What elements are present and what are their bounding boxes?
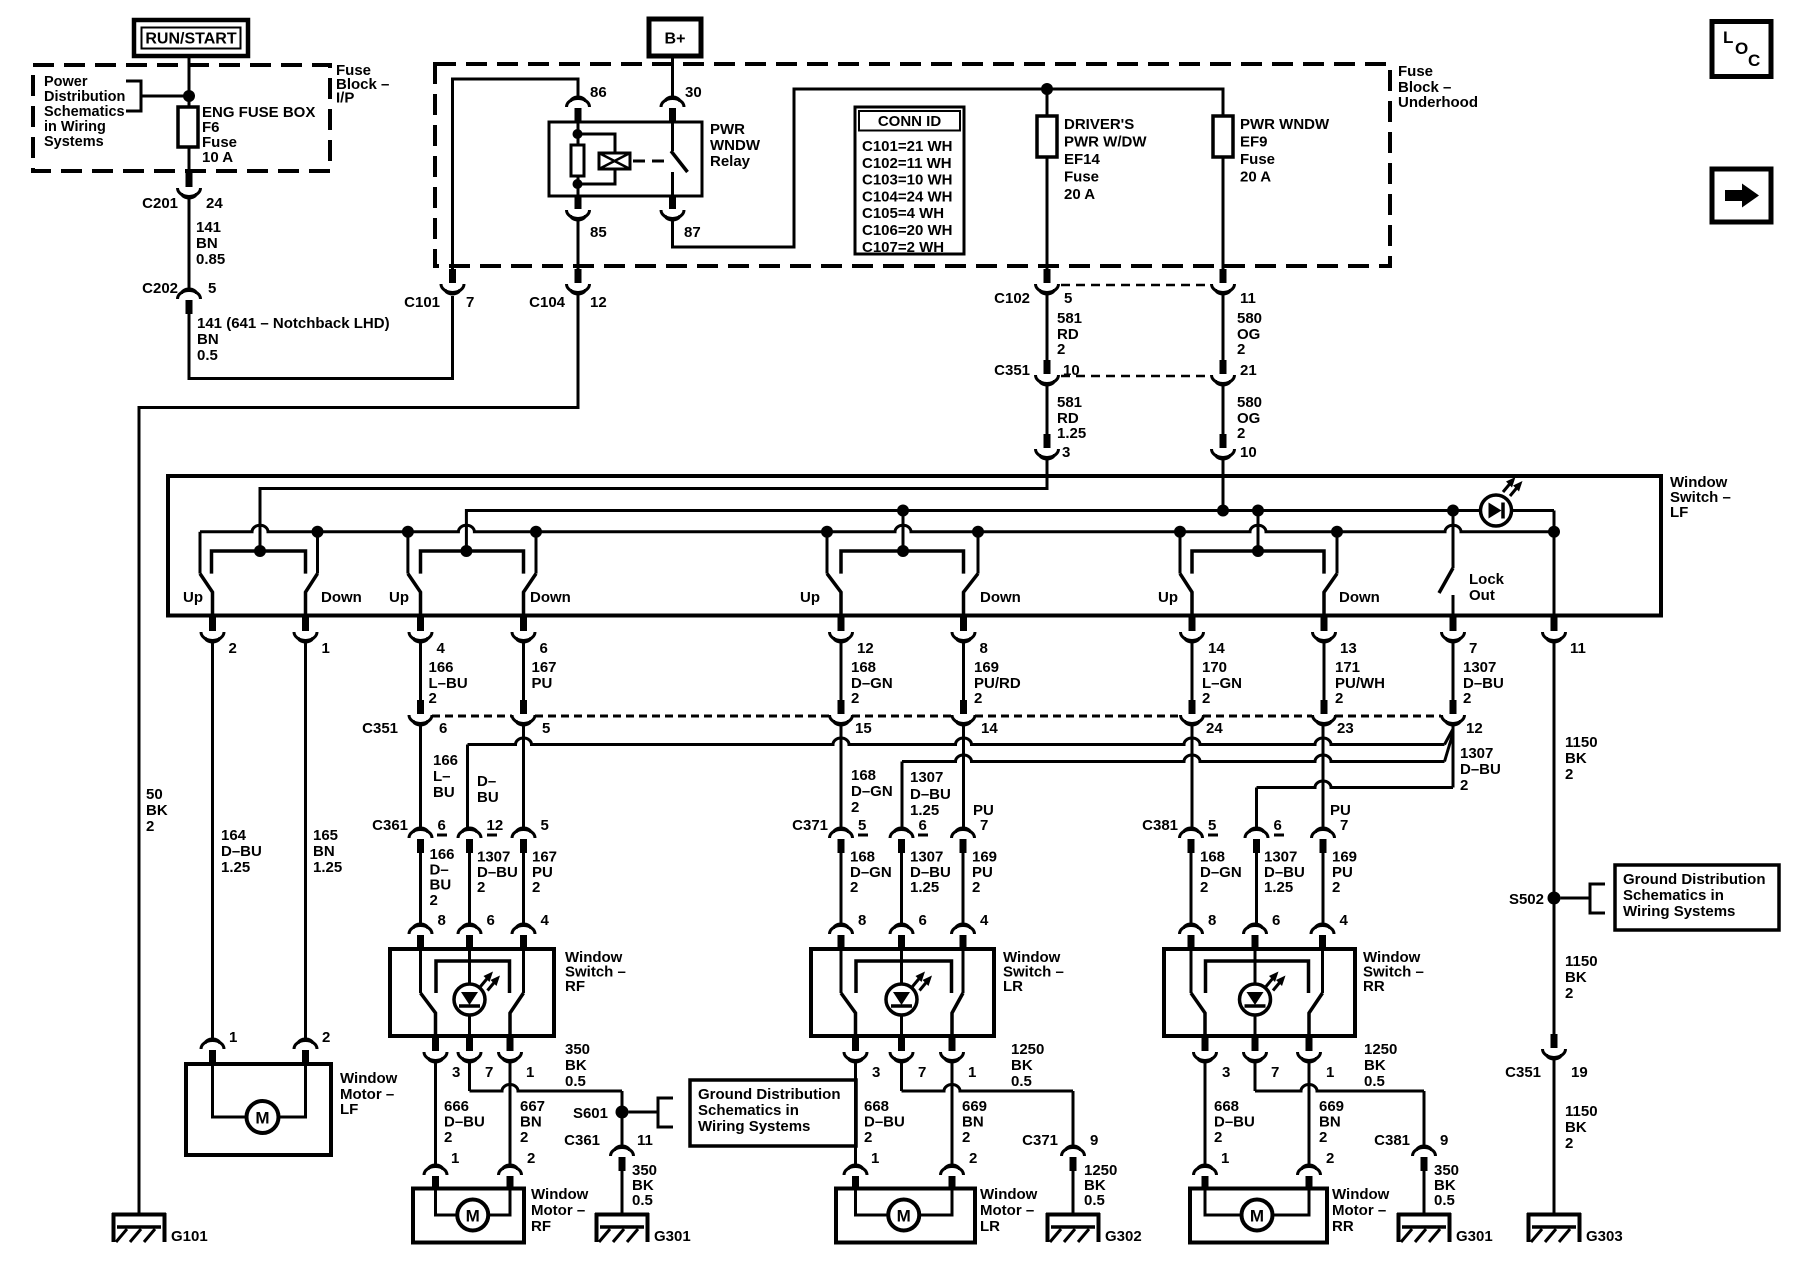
svg-text:2: 2 — [962, 1129, 970, 1146]
svg-text:11: 11 — [1570, 640, 1586, 657]
svg-text:20 A: 20 A — [1240, 169, 1271, 186]
svg-text:C371: C371 — [792, 817, 828, 834]
connector C371 pin 9 — [1070, 1157, 1077, 1171]
svg-text:580: 580 — [1237, 310, 1262, 327]
svg-text:2: 2 — [974, 690, 982, 707]
switch Lock Out pin 7 — [1452, 511, 1455, 569]
svg-text:4: 4 — [437, 640, 446, 657]
wire relay pin 85 to C104 — [577, 221, 580, 269]
LR contacts drops — [826, 532, 829, 574]
LR rocker bracket and tap — [841, 551, 964, 574]
svg-text:23: 23 — [1337, 720, 1354, 737]
window switch pin 4 connector — [960, 935, 967, 949]
CONN ID table — [855, 107, 964, 254]
svg-text:3: 3 — [1062, 444, 1070, 461]
connector C101 pin 7 — [451, 266, 454, 269]
wire 169 PU to C371 — [962, 726, 965, 829]
switch blade LF Down pin 1 — [306, 574, 318, 615]
svg-text:2: 2 — [1214, 1129, 1222, 1146]
svg-text:7: 7 — [466, 294, 474, 311]
wire 170 L-GN 2 — [1191, 643, 1194, 701]
wire 168 D–GN 2 — [1190, 853, 1193, 925]
window motor pin 2 connector — [1306, 1176, 1313, 1190]
svg-text:10 A: 10 A — [202, 149, 233, 166]
svg-text:141 (641 – Notchback LHD): 141 (641 – Notchback LHD) — [197, 315, 390, 332]
svg-text:14: 14 — [1208, 640, 1225, 657]
ground G301 right — [1397, 1213, 1451, 1217]
svg-text:D–BU: D–BU — [444, 1114, 485, 1131]
svg-text:667: 667 — [520, 1098, 545, 1115]
svg-text:C202: C202 — [142, 280, 178, 297]
svg-text:170: 170 — [1202, 659, 1227, 676]
svg-text:RUN/START: RUN/START — [145, 31, 236, 48]
svg-text:2: 2 — [430, 892, 438, 909]
svg-text:DRIVER'S: DRIVER'S — [1064, 116, 1134, 133]
svg-text:669: 669 — [1319, 1098, 1344, 1115]
svg-text:Fuse: Fuse — [1240, 151, 1275, 168]
window switch pin 3 connector — [1204, 1036, 1207, 1038]
svg-text:EF14: EF14 — [1064, 151, 1101, 168]
svg-text:2: 2 — [527, 1150, 535, 1167]
svg-text:C101: C101 — [404, 294, 440, 311]
wire 167 PU 2 — [522, 853, 525, 925]
svg-text:50: 50 — [146, 786, 163, 803]
svg-text:Up: Up — [800, 589, 820, 606]
wire 141 (641 - Notchback LHD) BN 0.5 — [189, 296, 453, 379]
callout box Ground Distribution Schematics in Wiring Systems — [690, 1080, 856, 1146]
junction dot fuse EF14 feed — [1041, 83, 1053, 95]
switch blade LR down — [952, 993, 963, 1036]
svg-text:0.5: 0.5 — [1364, 1073, 1385, 1090]
component Window Switch - RF box — [390, 949, 554, 1036]
legend arrow box — [1712, 169, 1771, 222]
svg-text:1150: 1150 — [1565, 1103, 1598, 1120]
switch blade RR down — [1309, 993, 1323, 1036]
window motor pin 1 connector — [432, 1176, 439, 1190]
svg-text:581: 581 — [1057, 394, 1082, 411]
svg-text:C381: C381 — [1374, 1132, 1410, 1149]
svg-text:2: 2 — [972, 879, 980, 896]
svg-text:Down: Down — [530, 589, 571, 606]
svg-text:1150: 1150 — [1565, 953, 1598, 970]
window motor pin 1 connector — [1202, 1176, 1209, 1190]
svg-text:C105=4 WH: C105=4 WH — [862, 205, 944, 222]
svg-text:LR: LR — [980, 1218, 1000, 1235]
svg-text:0.5: 0.5 — [1011, 1073, 1032, 1090]
svg-text:10: 10 — [1240, 444, 1257, 461]
svg-text:C107=2 WH: C107=2 WH — [862, 239, 944, 256]
component Window Switch - LF box — [168, 476, 1661, 616]
LF up/down rocker bracket — [212, 551, 306, 574]
window switch pin 6 connector — [898, 935, 905, 949]
svg-text:2: 2 — [1332, 879, 1340, 896]
svg-text:169: 169 — [974, 659, 999, 676]
svg-text:6: 6 — [439, 720, 447, 737]
svg-text:9: 9 — [1090, 1132, 1098, 1149]
svg-text:C104=24 WH: C104=24 WH — [862, 188, 952, 205]
svg-text:I/P: I/P — [336, 90, 354, 107]
wire 1307 D-BU 2 lockout — [1452, 643, 1455, 701]
wire 669 BN 2 to motor pin 2 — [951, 1063, 954, 1166]
svg-text:166: 166 — [429, 659, 454, 676]
wire 1150 BK 2 from pin 11 — [1553, 643, 1556, 892]
svg-text:M: M — [1250, 1207, 1264, 1226]
svg-text:2: 2 — [969, 1150, 977, 1167]
splice S502 — [1548, 892, 1561, 905]
svg-text:C351: C351 — [994, 362, 1030, 379]
wire 169 PU/RD 2 — [962, 643, 965, 701]
window switch LF pin 4 connector — [419, 615, 422, 618]
svg-text:5: 5 — [1208, 817, 1216, 834]
connector C371 pin 7 — [960, 839, 967, 853]
window motor LF pin connectors — [211, 1040, 214, 1041]
svg-text:in Wiring: in Wiring — [44, 119, 106, 135]
svg-text:C106=20 WH: C106=20 WH — [862, 222, 952, 239]
svg-text:G302: G302 — [1105, 1228, 1142, 1245]
svg-text:2: 2 — [851, 799, 859, 816]
svg-text:D–BU: D–BU — [864, 1114, 905, 1131]
wire RUN/START to fuse F6 — [188, 56, 191, 107]
connector C381 pin 6 — [1253, 839, 1260, 853]
svg-text:WNDW: WNDW — [710, 137, 761, 154]
wire 669 BN 2 to motor pin 2 — [1308, 1063, 1311, 1166]
svg-text:2: 2 — [532, 879, 540, 896]
svg-text:O: O — [1735, 39, 1748, 58]
window motor pin 2 connector — [507, 1176, 514, 1190]
wire 1307 D-BU 2 distribution — [1452, 726, 1455, 788]
svg-text:D–BU: D–BU — [910, 786, 951, 803]
svg-text:D–BU: D–BU — [1460, 761, 1501, 778]
svg-text:C371: C371 — [1022, 1132, 1058, 1149]
window switch pin 7 connector — [1254, 1036, 1257, 1038]
svg-text:2: 2 — [520, 1129, 528, 1146]
switch blade RF Up pin 4 — [408, 574, 421, 615]
svg-text:BN: BN — [1319, 1114, 1341, 1131]
svg-text:2: 2 — [1319, 1129, 1327, 1146]
connector C361 pin 6 — [417, 839, 424, 853]
svg-text:4: 4 — [980, 912, 989, 929]
svg-text:0.5: 0.5 — [197, 347, 218, 364]
switch blade RR Down pin 13 — [1324, 574, 1337, 615]
connector C361 pin 12 — [466, 839, 473, 853]
fuse block I/P dashed box — [33, 65, 330, 171]
window switch pin 3 connector — [434, 1036, 437, 1038]
LED illumination lamp LR switch — [900, 949, 903, 984]
svg-text:0.5: 0.5 — [1434, 1192, 1455, 1209]
connector C371 pin 5 — [838, 839, 845, 853]
connector C351 pin 21 — [1220, 360, 1227, 374]
pointer to Ground Distribution callout right — [1561, 897, 1591, 900]
bus wire 580 OG inside switch — [466, 511, 1480, 552]
LR switch outer contacts — [840, 949, 843, 993]
svg-text:2: 2 — [851, 690, 859, 707]
fuse block Underhood dashed box — [435, 64, 1390, 266]
svg-text:Window: Window — [980, 1186, 1038, 1203]
svg-text:14: 14 — [981, 720, 998, 737]
wire 141 BN 0.85 — [188, 199, 191, 290]
svg-text:Systems: Systems — [44, 134, 104, 150]
RR contacts drops — [1179, 532, 1182, 574]
svg-text:20 A: 20 A — [1064, 186, 1095, 203]
switch blade LR Up pin 12 — [827, 574, 841, 615]
svg-text:S502: S502 — [1509, 891, 1544, 908]
window switch LF pin 8 connector — [962, 615, 965, 618]
window switch pin 4 connector — [1319, 935, 1326, 949]
svg-text:1250: 1250 — [1364, 1041, 1397, 1058]
svg-text:C101=21 WH: C101=21 WH — [862, 138, 952, 155]
svg-text:1.25: 1.25 — [910, 879, 939, 896]
svg-text:24: 24 — [206, 195, 223, 212]
window switch LF pin 1 connector — [304, 615, 307, 618]
svg-text:Fuse: Fuse — [1398, 63, 1433, 80]
svg-text:1150: 1150 — [1565, 734, 1598, 751]
window switch pin 1 connector — [509, 1036, 512, 1038]
component Window Switch - RR box — [1164, 949, 1355, 1036]
svg-text:21: 21 — [1240, 362, 1257, 379]
svg-text:2: 2 — [1335, 690, 1343, 707]
svg-text:Ground Distribution: Ground Distribution — [1623, 871, 1765, 888]
svg-text:2: 2 — [1057, 341, 1065, 358]
window motor pin 2 connector — [949, 1176, 956, 1190]
svg-text:Window: Window — [340, 1070, 398, 1087]
relay pin 30 connector — [669, 108, 676, 122]
svg-text:2: 2 — [429, 690, 437, 707]
relay switch contact pins 30-87 — [671, 122, 674, 151]
svg-text:C381: C381 — [1142, 817, 1178, 834]
svg-text:4: 4 — [541, 912, 550, 929]
svg-text:D–: D– — [477, 773, 496, 790]
wire 166 L-BU to C361 — [419, 726, 422, 829]
svg-text:85: 85 — [590, 224, 607, 241]
window switch LF pin 12 connector — [840, 615, 843, 618]
svg-text:L: L — [1723, 28, 1733, 47]
wire 164 D-BU 1.25 to motor LF — [211, 643, 214, 1040]
svg-text:12: 12 — [857, 640, 874, 657]
svg-text:580: 580 — [1237, 394, 1262, 411]
wire bus 580 OG feed — [1222, 460, 1225, 511]
svg-text:PWR WNDW: PWR WNDW — [1240, 116, 1330, 133]
wire 168 D-GN 2 — [840, 643, 843, 701]
svg-text:M: M — [466, 1207, 480, 1226]
svg-text:C: C — [1748, 51, 1760, 70]
wire 1307 branch A to RF with hops — [1445, 729, 1454, 745]
svg-text:Window: Window — [531, 1186, 589, 1203]
switch blade LR up — [841, 993, 856, 1036]
wire C101 to relay coil pin 86 — [453, 79, 579, 269]
window switch LF pin 6 connector — [522, 615, 525, 618]
svg-text:CONN ID: CONN ID — [878, 113, 942, 130]
wire 1307 branch B to LR with hops — [1445, 733, 1454, 762]
svg-text:15: 15 — [855, 720, 872, 737]
connector C351 dashed link — [1061, 375, 1209, 378]
svg-text:PWR: PWR — [710, 121, 745, 138]
svg-text:LR: LR — [1003, 978, 1023, 995]
svg-text:2: 2 — [864, 1129, 872, 1146]
wire 350 BK 0.5 to G301 right — [1423, 1171, 1426, 1213]
svg-text:1.25: 1.25 — [313, 859, 342, 876]
connector C381 pin 7 — [1320, 839, 1327, 853]
RF contacts drops — [406, 532, 409, 574]
svg-text:8: 8 — [438, 912, 446, 929]
window switch LF pin 3 connector — [1046, 434, 1049, 435]
wire 166 D– BU 2 — [419, 853, 422, 925]
svg-text:C351: C351 — [1505, 1064, 1541, 1081]
svg-text:3: 3 — [872, 1064, 880, 1081]
svg-text:2: 2 — [1237, 341, 1245, 358]
svg-text:Down: Down — [321, 589, 362, 606]
switch blade LF Up pin 2 — [200, 574, 213, 615]
connector C371 pin 6 — [898, 839, 905, 853]
wire 166 L-BU 2 — [419, 643, 422, 701]
svg-text:D–BU: D–BU — [221, 843, 262, 860]
svg-text:0.5: 0.5 — [1084, 1192, 1105, 1209]
svg-text:Schematics in: Schematics in — [1623, 887, 1724, 904]
connector C351 pin 19 — [1551, 1034, 1558, 1048]
connector C351 pin 14 — [960, 700, 967, 714]
switch blade RR Up pin 14 — [1180, 574, 1192, 615]
fuse EF14 DRIVER'S PWR W/DW 20 A — [1037, 116, 1057, 157]
window switch pin 8 connector — [1188, 935, 1195, 949]
switch blade RF Down pin 6 — [524, 574, 537, 615]
svg-text:B+: B+ — [665, 31, 686, 48]
svg-text:2: 2 — [1565, 1135, 1573, 1152]
svg-text:11: 11 — [637, 1132, 653, 1149]
svg-text:1307: 1307 — [1460, 745, 1493, 762]
svg-text:1: 1 — [322, 640, 330, 657]
wire relay pin 87 to underhood fuses — [673, 89, 1224, 247]
connector C351 pin 6 — [417, 700, 424, 714]
connector C202 pin 5 — [186, 300, 193, 314]
svg-text:1: 1 — [451, 1150, 459, 1167]
svg-text:87: 87 — [684, 224, 701, 241]
connector C102 pin 5 — [1044, 269, 1051, 283]
svg-text:C361: C361 — [564, 1132, 600, 1149]
svg-text:Wiring Systems: Wiring Systems — [1623, 903, 1735, 920]
relay coil winding symbol — [578, 134, 615, 153]
wire 1150 BK 2 to C351 pin 19 — [1553, 904, 1556, 1035]
svg-text:LF: LF — [1670, 504, 1688, 521]
svg-text:0.85: 0.85 — [196, 251, 225, 268]
wire 168 D-GN to C371 — [840, 726, 843, 829]
RF switch feed bracket — [436, 961, 510, 993]
wire 581 RD 1.25 — [1046, 386, 1049, 434]
window switch pin 7 connector — [468, 1036, 471, 1038]
connector C361 pin 11 — [621, 1118, 624, 1147]
svg-text:2: 2 — [444, 1129, 452, 1146]
svg-text:Motor –: Motor – — [980, 1202, 1034, 1219]
svg-text:6: 6 — [919, 817, 927, 834]
connector C104 pin 12 — [575, 269, 582, 283]
window switch pin 6 connector — [1252, 935, 1259, 949]
window switch LF pin 14 connector — [1191, 615, 1194, 618]
wire 581 RD 2 — [1046, 295, 1049, 361]
svg-text:C104: C104 — [529, 294, 566, 311]
svg-text:7: 7 — [918, 1064, 926, 1081]
LED illumination lamp RF switch — [468, 949, 471, 984]
svg-text:5: 5 — [541, 817, 549, 834]
svg-text:BK: BK — [146, 802, 168, 819]
connector C351 pin 15 — [838, 700, 845, 714]
wire 668 D–BU 2 to motor pin 1 — [1204, 1063, 1207, 1166]
svg-text:6: 6 — [540, 640, 548, 657]
fuse EF9 PWR WNDW 20 A — [1213, 116, 1233, 157]
ground G302 — [1046, 1213, 1100, 1217]
svg-text:2: 2 — [1326, 1150, 1334, 1167]
svg-text:1307: 1307 — [1463, 659, 1496, 676]
wire 167 PU to C361 — [522, 726, 525, 829]
svg-text:141: 141 — [196, 219, 221, 236]
svg-text:LF: LF — [340, 1101, 358, 1118]
wire 169 PU 2 — [962, 853, 965, 925]
svg-text:Up: Up — [183, 589, 203, 606]
svg-text:8: 8 — [858, 912, 866, 929]
svg-text:7: 7 — [980, 817, 988, 834]
wire 1307 D–BU 2 — [468, 853, 471, 925]
svg-text:668: 668 — [864, 1098, 889, 1115]
svg-text:171: 171 — [1335, 659, 1360, 676]
svg-text:86: 86 — [590, 84, 607, 101]
svg-text:2: 2 — [1202, 690, 1210, 707]
fuse F6 ENG FUSE BOX 10 A — [178, 107, 198, 147]
wire 350 BK 0.5 to G301 — [621, 1171, 624, 1213]
switch blade RF down — [510, 993, 524, 1036]
window motor pin 1 connector — [852, 1176, 859, 1190]
svg-text:11: 11 — [1240, 290, 1256, 307]
svg-text:168: 168 — [851, 767, 876, 784]
svg-text:Distribution: Distribution — [44, 89, 125, 105]
RF switch outer contacts — [419, 949, 422, 993]
svg-text:BK: BK — [1565, 1119, 1587, 1136]
svg-text:1: 1 — [871, 1150, 879, 1167]
ground G101 — [112, 1213, 166, 1217]
ground G303 — [1527, 1213, 1581, 1217]
window switch pin 6 connector — [466, 935, 473, 949]
LED illumination lamp RR switch — [1254, 949, 1257, 984]
splice S601 — [616, 1106, 629, 1119]
wire 50 BK 2 to ground G101 — [139, 295, 578, 1213]
svg-text:4: 4 — [1340, 912, 1349, 929]
svg-text:C102: C102 — [994, 290, 1030, 307]
connector C102 pin 11 — [1220, 269, 1227, 283]
svg-text:Out: Out — [1469, 587, 1495, 604]
wire 171 PU to C381 — [1322, 726, 1325, 829]
svg-text:669: 669 — [962, 1098, 987, 1115]
connector C351 pin 5 — [520, 700, 527, 714]
connector C351 pin 23 — [1321, 700, 1328, 714]
connector C102 dashed link — [1061, 284, 1209, 287]
RR rocker bracket and tap — [1192, 551, 1324, 574]
svg-text:BK: BK — [565, 1057, 587, 1074]
window switch LF pin 2 connector — [211, 615, 214, 618]
svg-text:C351: C351 — [362, 720, 398, 737]
relay coil branch with resistor — [577, 122, 580, 145]
component Window Motor - RR — [1190, 1189, 1327, 1243]
svg-text:24: 24 — [1206, 720, 1223, 737]
RR switch feed bracket — [1206, 961, 1309, 993]
node RUN/START (power feed box) — [134, 20, 248, 56]
svg-text:1.25: 1.25 — [1264, 879, 1293, 896]
svg-text:Underhood: Underhood — [1398, 94, 1478, 111]
svg-text:Fuse: Fuse — [1064, 169, 1099, 186]
legend LOC box — [1712, 22, 1771, 77]
connector C381 pin 5 — [1188, 839, 1195, 853]
svg-text:BK: BK — [1011, 1057, 1033, 1074]
svg-text:1: 1 — [1326, 1064, 1334, 1081]
window switch pin 8 connector — [417, 935, 424, 949]
relay pin 87 connector — [669, 195, 676, 209]
ground G301 — [595, 1213, 649, 1217]
svg-text:6: 6 — [438, 817, 446, 834]
